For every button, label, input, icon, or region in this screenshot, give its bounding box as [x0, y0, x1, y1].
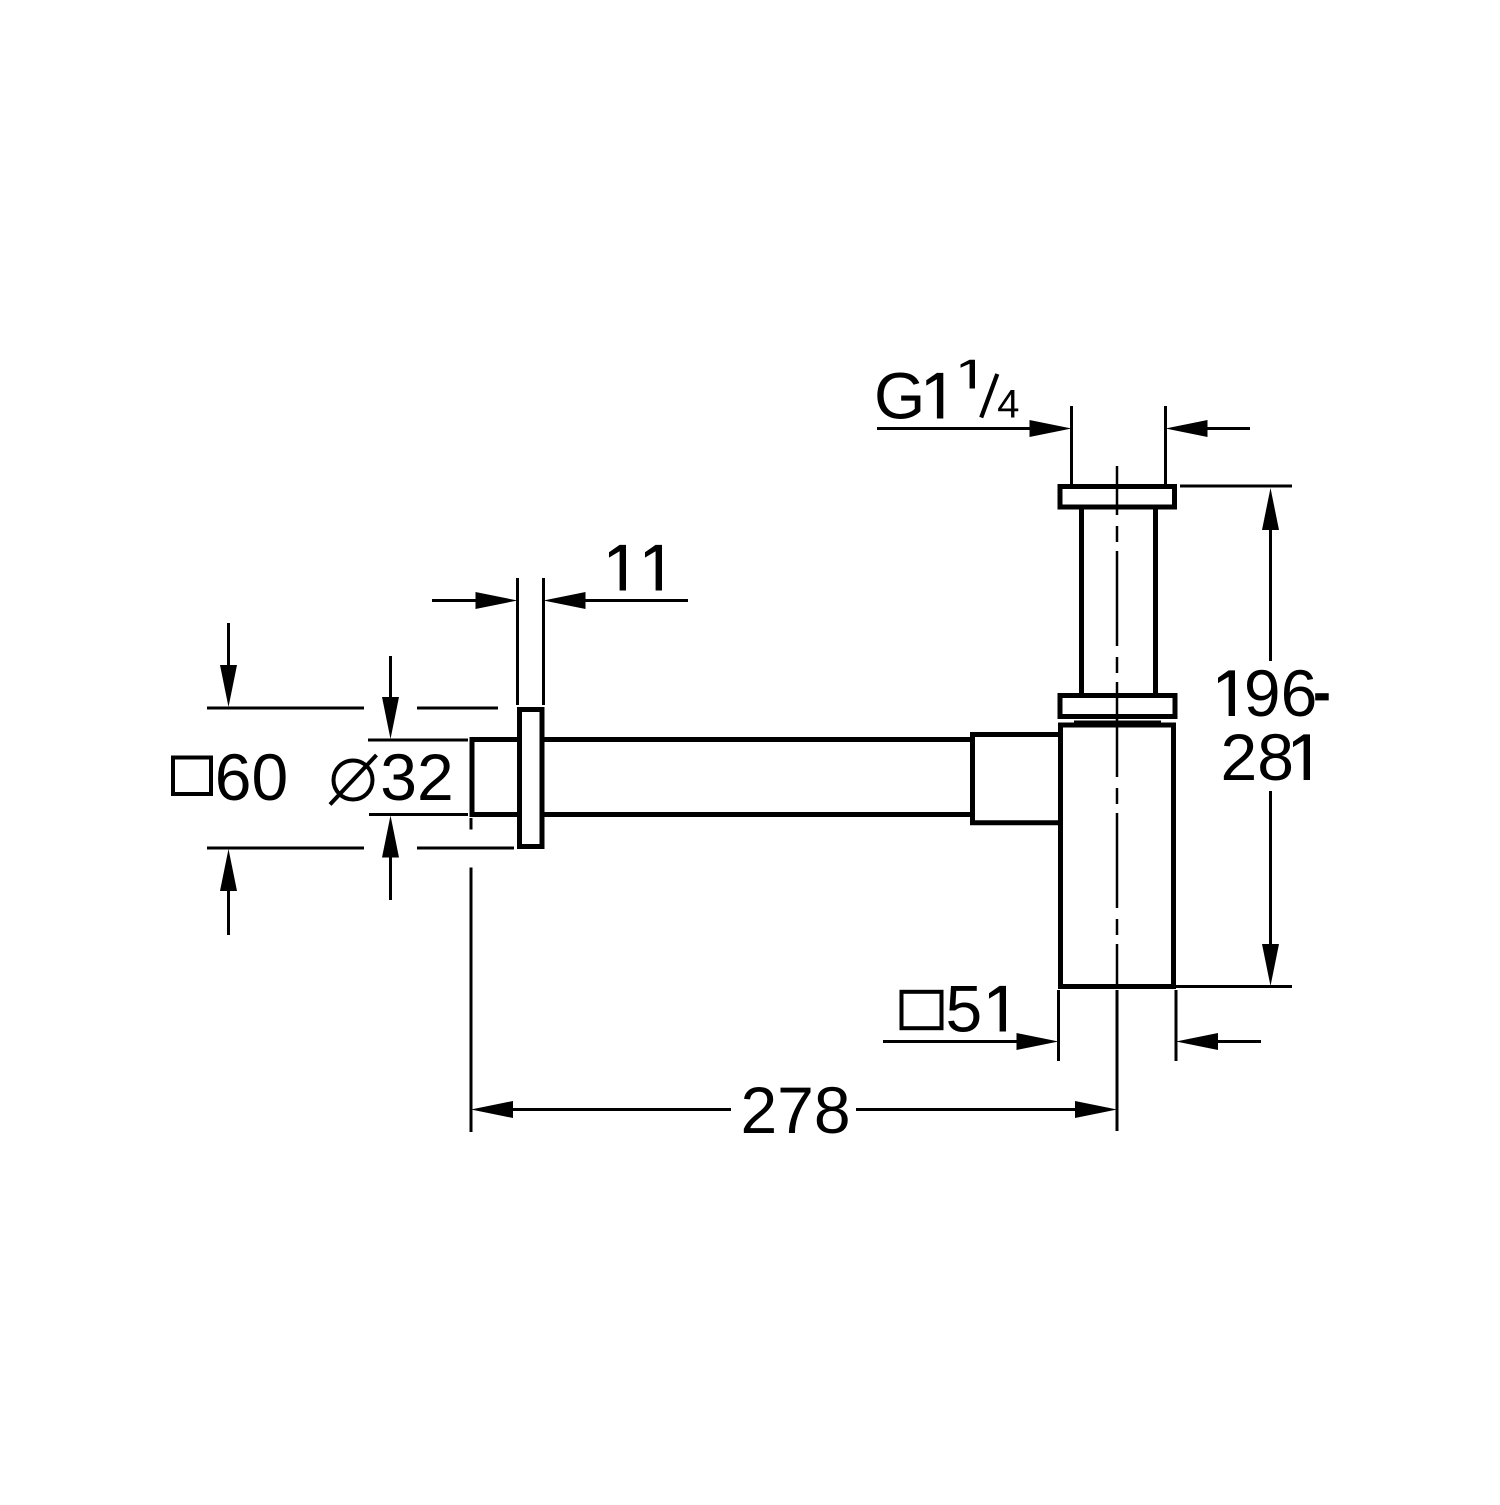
- dimension G1 1/4: left extension line: [1070, 406, 1073, 484]
- dimension G1 1/4: right tail line: [1204, 427, 1250, 430]
- dimension G1 1/4: leader line: [877, 406, 1250, 484]
- dimension square-60: top arrow: [207, 623, 514, 935]
- dimension 278: left extension line: [471, 818, 1117, 1132]
- dimension square-51: right side left-pointing arrow: [1176, 1033, 1218, 1050]
- svg-text:28: 28: [1221, 720, 1294, 794]
- label 196-281: [1218, 656, 1329, 794]
- wall flange on tailpipe: [520, 710, 543, 847]
- dimension 11: left line and arrow: [432, 578, 688, 705]
- svg-text:G: G: [874, 359, 925, 433]
- dimension 196-281: bottom extension line: [1176, 985, 1292, 988]
- center line below body (278 extension): [1116, 990, 1119, 1131]
- mid flange (trap nut): [1060, 696, 1175, 717]
- svg-text:278: 278: [740, 1073, 850, 1147]
- dimension dia-32: top arrow: [368, 656, 468, 900]
- dimension square-60: bottom arrow: [227, 890, 230, 935]
- dimension G1 1/4: right-pointing arrow: [1030, 420, 1072, 437]
- dimension G1 1/4: left-pointing arrow: [1166, 420, 1208, 437]
- dimension square-60: top extension line: [207, 707, 364, 710]
- svg-text:32: 32: [380, 740, 453, 814]
- label G1 1/4: [874, 359, 1018, 433]
- dimension G1 1/4: right extension line: [1164, 406, 1167, 484]
- vertical inlet tube: [1082, 495, 1156, 705]
- svg-text:96: 96: [1244, 656, 1317, 730]
- label 11: [609, 545, 626, 591]
- top flange (basin connection): [1060, 487, 1175, 508]
- label square 60: [173, 740, 288, 814]
- dimension square-51: extension lines below body: [1057, 990, 1060, 1061]
- dimension dia-32: bottom arrow: [389, 856, 392, 900]
- label square 51: [902, 972, 1007, 1046]
- label diameter 32: [330, 740, 454, 814]
- svg-text:60: 60: [215, 740, 288, 814]
- dimension 278: right segment and right-pointing arrow: [856, 1108, 1078, 1111]
- dimension 196-281: top extension line: [1176, 486, 1292, 987]
- vertical centerline (dash-dot): [1116, 466, 1119, 985]
- trap body (cup): [1061, 725, 1174, 987]
- inlet tailpipe (horizontal pipe): [470, 737, 970, 817]
- dimension 196-281: upper arrow (up): [1262, 488, 1279, 530]
- svg-text:5: 5: [946, 972, 983, 1046]
- dimension dia-32: top extension line: [368, 739, 468, 742]
- dimension 278: left-pointing arrow: [471, 1101, 513, 1118]
- dimension square-51: dimension line with right-pointing arrow: [883, 990, 1261, 1061]
- gasket line under mid flange: [1074, 721, 1161, 724]
- dimension 11: extension lines: [516, 578, 519, 705]
- dimension dia-32: bottom extension line: [369, 813, 468, 816]
- connector block between tailpipe and trap body: [973, 735, 1061, 823]
- dimension square-60: bottom extension line: [207, 847, 364, 850]
- dimension 196-281: lower line and arrow (down): [1269, 791, 1272, 944]
- dimension 11: right arrow and line: [544, 592, 586, 609]
